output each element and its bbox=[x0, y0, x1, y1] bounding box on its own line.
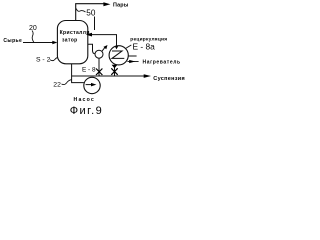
svg-text:20: 20 bbox=[29, 25, 37, 32]
wire exchanger bottom through valve V2 bbox=[114, 65, 116, 76]
arrow down onto exchanger top bbox=[115, 46, 119, 49]
pump (Nasos) circle bbox=[84, 77, 100, 93]
valve V1 under small pump bbox=[96, 69, 102, 76]
wire recirculation return line bbox=[92, 35, 117, 47]
vessel crystallizer bbox=[57, 21, 87, 64]
heat exchanger coil Z bbox=[112, 51, 124, 58]
heat exchanger E-8a circle bbox=[109, 46, 128, 65]
leader squiggle S-2 bbox=[50, 57, 58, 60]
svg-text:Суспензия: Суспензия bbox=[153, 76, 185, 82]
leader to E-8a label bbox=[125, 45, 131, 49]
arrow to heater label bbox=[129, 60, 135, 63]
arrow suspension out bbox=[144, 74, 151, 78]
svg-text:Сырье: Сырье bbox=[3, 38, 22, 44]
arrow recirculation into vessel bbox=[86, 33, 92, 37]
arrow inside pump bbox=[86, 84, 92, 86]
wire vapor overhead line bbox=[76, 4, 104, 21]
valve V2 under exchanger bbox=[111, 68, 117, 75]
leader squiggle 22 bbox=[62, 80, 72, 85]
svg-text:22: 22 bbox=[53, 82, 61, 89]
wire heater stub top bbox=[128, 55, 136, 57]
wire small pump to valve V1 bbox=[98, 58, 100, 76]
wire valve V1 to suspension line bbox=[98, 75, 100, 76]
svg-text:50: 50 bbox=[86, 8, 96, 17]
svg-text:S - 2: S - 2 bbox=[36, 56, 51, 63]
wire vent line below label 50 bbox=[94, 17, 96, 31]
svg-text:Е - 8а: Е - 8а bbox=[133, 41, 156, 51]
small recirculation pump circle bbox=[95, 50, 103, 58]
arrow small pump discharge bbox=[102, 45, 108, 51]
wire vessel bottom outlet to pump bbox=[72, 64, 84, 83]
wire valve V2 to suspension line bbox=[114, 75, 116, 76]
leader squiggle 50 bbox=[76, 9, 85, 12]
svg-text:Насос: Насос bbox=[74, 97, 96, 103]
svg-text:Е - 8: Е - 8 bbox=[82, 66, 96, 73]
leader squiggle 20 bbox=[32, 31, 34, 43]
svg-text:Пары: Пары bbox=[113, 2, 129, 8]
wire vessel side outlet to small pump bbox=[88, 44, 95, 54]
svg-text:затор: затор bbox=[62, 38, 78, 44]
arrow feed into vessel bbox=[52, 41, 57, 45]
wire heater arrow line bottom bbox=[127, 61, 138, 63]
svg-text:Фиг.9: Фиг.9 bbox=[70, 105, 103, 117]
svg-text:Кристалли: Кристалли bbox=[60, 30, 90, 36]
arrow down from exchanger to valve V2 bbox=[112, 65, 118, 69]
wire feed line bbox=[23, 42, 54, 44]
svg-text:Нагреватель: Нагреватель bbox=[143, 59, 181, 65]
arrow vapors out bbox=[103, 2, 110, 6]
wire suspension line bbox=[72, 75, 145, 77]
